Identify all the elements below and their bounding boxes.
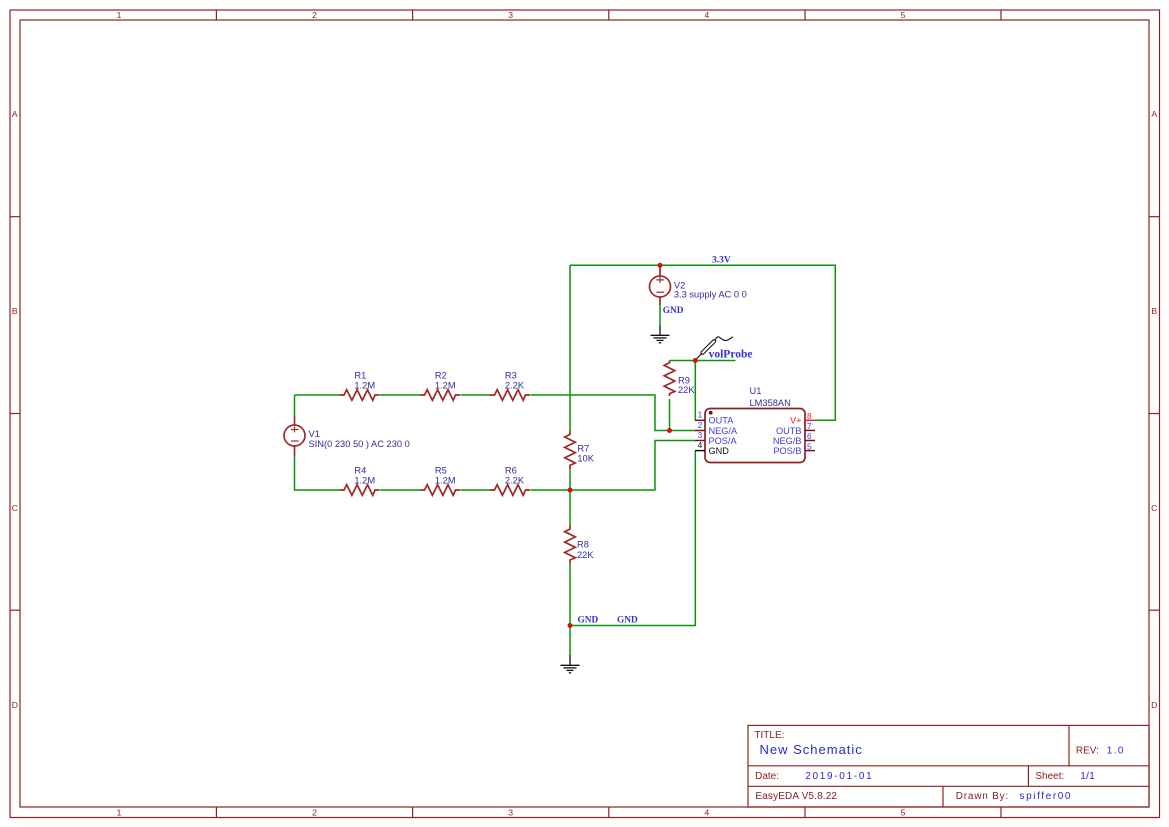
svg-text:R3: R3 [505, 370, 517, 380]
svg-text:C: C [1151, 503, 1157, 513]
svg-text:R8: R8 [577, 540, 589, 550]
svg-text:POS/B: POS/B [773, 446, 801, 456]
svg-text:2019-01-01: 2019-01-01 [805, 771, 873, 782]
wire 3.3V rail [570, 265, 835, 420]
pin 5 stub [805, 450, 815, 452]
pin 4 stub [695, 450, 705, 452]
svg-text:5: 5 [807, 441, 812, 451]
svg-text:New Schematic: New Schematic [760, 742, 863, 757]
svg-text:22K: 22K [577, 550, 594, 560]
svg-text:LM358AN: LM358AN [750, 398, 791, 408]
svg-text:4: 4 [705, 10, 710, 20]
svg-text:4: 4 [698, 440, 703, 450]
svg-text:6: 6 [807, 431, 812, 441]
junction node R7/bottom row [568, 488, 573, 493]
resistor R7 [565, 431, 576, 470]
svg-text:2: 2 [312, 10, 317, 20]
svg-text:R7: R7 [577, 444, 589, 454]
svg-text:B: B [1151, 306, 1157, 316]
title block [748, 725, 1149, 807]
junction node probe [693, 358, 698, 363]
svg-text:GND: GND [617, 615, 638, 625]
pin 6 stub [805, 440, 815, 442]
svg-text:SIN(0 230 50 ) AC 230 0: SIN(0 230 50 ) AC 230 0 [309, 439, 410, 449]
resistor R9 [664, 361, 675, 397]
svg-text:REV:: REV: [1076, 745, 1099, 756]
resistor R4 [340, 485, 380, 496]
svg-text:2.2K: 2.2K [505, 475, 525, 485]
svg-text:GND: GND [578, 615, 599, 625]
resistor R2 [420, 390, 460, 401]
svg-text:3.3 supply AC 0 0: 3.3 supply AC 0 0 [674, 290, 747, 300]
wire bottom row [380, 489, 421, 491]
pin 1 stub [695, 419, 705, 421]
svg-text:volProbe: volProbe [709, 348, 753, 360]
svg-text:Sheet:: Sheet: [1035, 771, 1064, 782]
voltage source V2 [650, 265, 671, 305]
resistor R1 [340, 390, 380, 401]
svg-text:Date:: Date: [755, 771, 779, 782]
svg-text:EasyEDA V5.8.22: EasyEDA V5.8.22 [755, 791, 837, 802]
pin names [709, 416, 738, 456]
svg-text:1.0: 1.0 [1107, 745, 1125, 756]
svg-text:1: 1 [117, 808, 122, 818]
svg-text:R1: R1 [354, 370, 366, 380]
wire probe horizontal [670, 360, 736, 362]
svg-text:GND: GND [663, 306, 684, 316]
junction node 3.3V/V2 [658, 263, 663, 268]
svg-text:2: 2 [698, 420, 703, 430]
svg-text:Drawn By:: Drawn By: [956, 791, 1009, 802]
svg-text:NEG/A: NEG/A [709, 426, 738, 436]
resistor R5 [420, 485, 460, 496]
svg-text:GND: GND [709, 446, 730, 456]
svg-text:TITLE:: TITLE: [754, 730, 784, 741]
pin 2 stub [695, 430, 705, 432]
junction node R9/pin2 [667, 428, 672, 433]
svg-text:3: 3 [698, 430, 703, 440]
svg-text:4: 4 [705, 808, 710, 818]
wire top row [295, 394, 341, 396]
svg-text:10K: 10K [577, 454, 594, 464]
svg-text:NEG/B: NEG/B [773, 436, 802, 446]
svg-text:1: 1 [698, 410, 703, 420]
svg-text:POS/A: POS/A [709, 436, 738, 446]
junction node GND net [568, 623, 573, 628]
svg-text:5: 5 [901, 10, 906, 20]
svg-text:1/1: 1/1 [1080, 771, 1095, 782]
wire pin1 to probe node [694, 361, 696, 421]
svg-text:R2: R2 [435, 370, 447, 380]
svg-text:A: A [12, 109, 18, 119]
svg-text:C: C [12, 503, 18, 513]
svg-text:OUTA: OUTA [709, 416, 735, 426]
svg-text:spiffer00: spiffer00 [1020, 791, 1073, 802]
svg-text:5: 5 [901, 808, 906, 818]
pin 7 stub [805, 429, 815, 431]
wire V1 top [294, 395, 296, 416]
svg-text:R5: R5 [435, 465, 447, 475]
svg-text:1: 1 [117, 10, 122, 20]
wire R9 bottom to pin2 junction [669, 399, 671, 431]
svg-text:R4: R4 [354, 465, 366, 475]
svg-text:22K: 22K [678, 385, 695, 395]
wire V2 bottom to ground [659, 305, 661, 325]
resistor R6 [490, 485, 530, 496]
svg-text:3.3V: 3.3V [712, 256, 731, 266]
svg-text:1.2M: 1.2M [435, 475, 456, 485]
wire V1 bottom [295, 456, 341, 491]
svg-text:U1: U1 [750, 386, 762, 396]
wire R7 bottom to GND net [569, 469, 571, 525]
op-amp U1 body [705, 409, 805, 463]
svg-text:R9: R9 [678, 375, 690, 385]
ground (bottom) [561, 655, 580, 673]
probe volProbe [696, 337, 733, 360]
svg-text:V+: V+ [790, 416, 802, 426]
svg-text:OUTB: OUTB [776, 426, 802, 436]
pin 1 marker dot [709, 411, 713, 415]
svg-text:D: D [1151, 700, 1157, 710]
svg-text:A: A [1151, 109, 1157, 119]
svg-text:3: 3 [508, 10, 513, 20]
svg-text:7: 7 [807, 421, 812, 431]
svg-text:V1: V1 [309, 429, 320, 439]
pin 8 stub [805, 419, 815, 421]
ground (below V2) [651, 325, 670, 343]
svg-text:R6: R6 [505, 465, 517, 475]
wire left vertical to R7 [569, 265, 571, 431]
wire GND net horizontal to pin4 [570, 451, 695, 626]
svg-text:2.2K: 2.2K [505, 380, 525, 390]
svg-text:2: 2 [312, 808, 317, 818]
pin 3 stub [695, 440, 705, 442]
resistor R8 [565, 525, 576, 564]
pin numbers [698, 410, 703, 450]
svg-text:1.2M: 1.2M [435, 380, 456, 390]
svg-text:B: B [12, 306, 18, 316]
voltage source V1 [284, 416, 305, 456]
svg-text:1.2M: 1.2M [354, 475, 375, 485]
resistor R3 [490, 390, 530, 401]
svg-text:1.2M: 1.2M [354, 380, 375, 390]
svg-text:3: 3 [508, 808, 513, 818]
svg-text:8: 8 [807, 411, 812, 421]
svg-text:D: D [12, 700, 18, 710]
